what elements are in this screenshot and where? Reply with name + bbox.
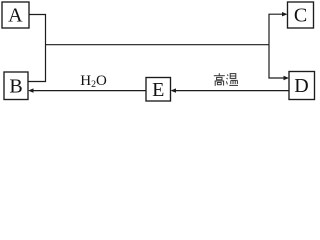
svg-text:A: A <box>8 5 23 27</box>
svg-text:B: B <box>9 75 22 97</box>
svg-text:E: E <box>152 79 164 101</box>
svg-text:D: D <box>294 75 308 97</box>
svg-text:C: C <box>294 5 307 27</box>
